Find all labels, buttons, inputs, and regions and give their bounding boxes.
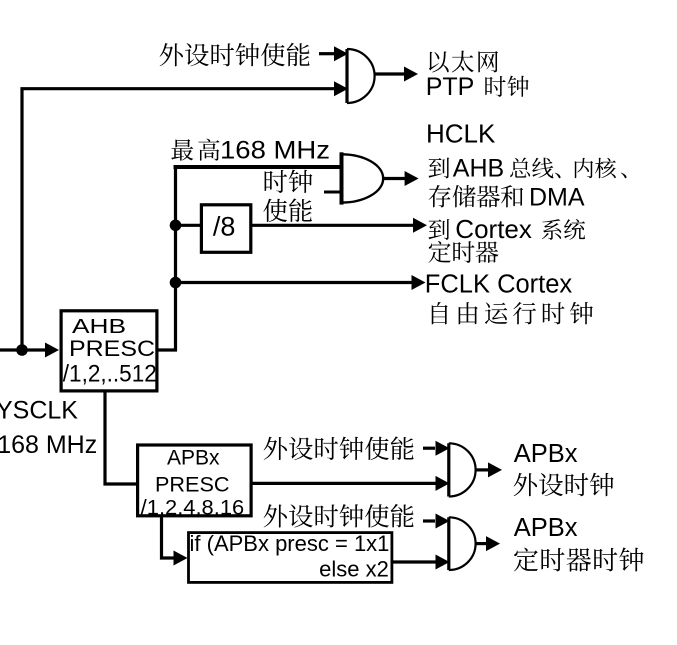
- svg-text:Cortex: Cortex: [455, 214, 532, 244]
- svg-text:168 MHz: 168 MHz: [0, 431, 97, 459]
- svg-text:APBx: APBx: [167, 447, 220, 470]
- svg-text:AHB: AHB: [72, 316, 126, 338]
- svg-text:YSCLK: YSCLK: [0, 396, 78, 424]
- svg-text:APBx: APBx: [514, 514, 578, 542]
- svg-text:/8: /8: [213, 211, 236, 241]
- svg-text:PRESC: PRESC: [155, 473, 230, 496]
- svg-text:FCLK Cortex: FCLK Cortex: [425, 271, 573, 299]
- svg-text:if (APBx presc = 1x1: if (APBx presc = 1x1: [190, 531, 390, 556]
- svg-text:PRESC: PRESC: [69, 336, 155, 361]
- svg-text:DMA: DMA: [529, 184, 585, 212]
- svg-text:AHB: AHB: [453, 155, 504, 183]
- svg-text:HCLK: HCLK: [426, 119, 496, 149]
- svg-text:168 MHz: 168 MHz: [220, 136, 330, 164]
- svg-text:else x2: else x2: [319, 557, 389, 582]
- svg-text:/1,2,4,8,16: /1,2,4,8,16: [141, 496, 245, 519]
- svg-text:PTP: PTP: [426, 73, 475, 101]
- svg-text:/1,2,..512: /1,2,..512: [63, 361, 157, 388]
- svg-text:APBx: APBx: [514, 440, 578, 468]
